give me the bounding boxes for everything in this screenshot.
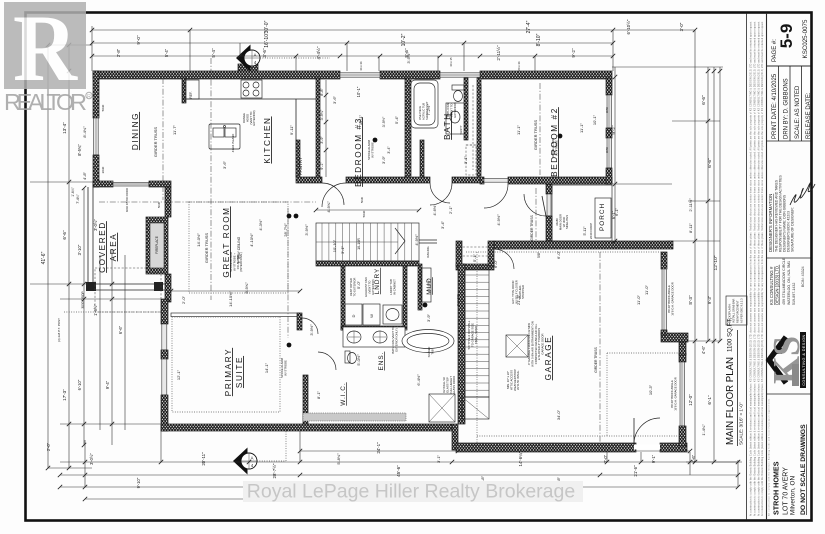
svg-text:ACRYLIC TUB: ACRYLIC TUB [422,103,426,120]
svg-text:Milverton, ON: Milverton, ON [790,476,797,515]
svg-text:2030: 2030 [101,166,105,173]
svg-text:RELEASE DATE:: RELEASE DATE: [806,92,812,139]
top dimension labels [116,20,576,60]
extra bottom labels [336,453,561,486]
fireplace [146,217,168,274]
svg-text:REINFORCEMENT: REINFORCEMENT [736,300,740,323]
svg-text:GIRDER TRUSS: GIRDER TRUSS [204,233,209,263]
svg-text:W/ STROBE: W/ STROBE [283,360,287,376]
svg-text:VANITY: VANITY [459,125,463,134]
svg-text:8'-9⅝": 8'-9⅝" [244,282,249,294]
svg-text:12'-10": 12'-10" [713,255,719,270]
svg-text:4'-6½": 4'-6½" [426,279,431,291]
wic closet shelf [303,413,406,421]
svg-text:6'-6": 6'-6" [118,325,123,334]
svg-text:SOAKER: SOAKER [427,346,431,357]
svg-text:KITCHEN: KITCHEN [263,116,272,163]
svg-text:At construction to comply with: At construction to comply with the Ontar… [750,21,753,516]
svg-text:36 x 36: 36 x 36 [359,61,363,71]
disclaimer fine print column [750,21,765,516]
svg-text:459 STILLMEADOW CIRCLE: 459 STILLMEADOW CIRCLE [782,257,786,305]
svg-text:IN CABINET: IN CABINET [392,279,396,295]
svg-text:Royal LePage Hiller Realty Bro: Royal LePage Hiller Realty Brokerage [247,481,575,503]
svg-text:41'-6": 41'-6" [41,251,47,264]
basement stairs [456,269,489,419]
svg-text:5'-11": 5'-11" [583,226,587,236]
ceiling dashed outlines [172,202,679,443]
svg-text:At construction to comply with: At construction to comply with the Ontar… [758,21,761,516]
svg-text:6'-0": 6'-0" [556,250,561,259]
svg-text:6'-10½": 6'-10½" [626,19,631,34]
svg-text:3'-10": 3'-10" [77,244,82,255]
bedroom2 closet [473,85,481,170]
svg-text:9'-11": 9'-11" [289,124,294,134]
right dimension lines [611,19,742,464]
svg-text:10'-1": 10'-1" [358,114,363,125]
svg-text:10'-1": 10'-1" [356,86,361,97]
svg-text:5030: 5030 [101,104,105,111]
svg-text:10'-1": 10'-1" [592,114,597,125]
bottom dimension lines [46,431,740,501]
svg-text:4'-9⅝": 4'-9⅝" [326,201,331,213]
svg-text:3'-9½": 3'-9½" [406,52,411,64]
svg-text:5'-8¾": 5'-8¾" [336,453,341,465]
smoke alarm symbols [287,134,563,348]
svg-text:4'-10½": 4'-10½" [249,233,254,247]
svg-text:4'-9½": 4'-9½" [496,214,501,226]
section marker top [236,45,330,72]
svg-text:5030: 5030 [360,196,364,203]
REALTOR logo [4,0,92,115]
svg-text:3'-0½": 3'-0½" [93,219,98,231]
svg-text:All construction to comply wit: All construction to comply with the Onta… [768,398,771,516]
svg-text:EXTERIOR): EXTERIOR) [371,279,375,294]
primary suite top wall [169,208,318,338]
svg-text:SUITE: SUITE [235,356,244,388]
svg-text:BACKSPLASH:: BACKSPLASH: [728,303,732,323]
svg-text:KSC025-0075: KSC025-0075 [802,19,809,58]
title block: print date / drn / scale / release fields [767,66,813,258]
svg-text:9'-1": 9'-1" [320,162,324,170]
svg-text:2'-8": 2'-8" [116,48,121,57]
svg-text:PRINT DATE: 4/10/2025: PRINT DATE: 4/10/2025 [772,73,778,139]
svg-text:GIRDER TRUSS: GIRDER TRUSS [533,120,538,150]
svg-text:AS PER OBC 9.5.2.3: AS PER OBC 9.5.2.3 [740,298,744,323]
svg-text:MAIN FLOOR PLAN: MAIN FLOOR PLAN [725,357,736,445]
svg-text:3'-9": 3'-9" [426,313,431,322]
svg-text:10'-10": 10'-10" [332,239,337,252]
svg-text:11'-1": 11'-1" [579,122,584,132]
svg-text:6'-1": 6'-1" [614,207,619,216]
svg-text:ONE PIECE: ONE PIECE [418,106,422,120]
svg-text:2'-1": 2'-1" [448,205,453,214]
svg-text:BCIN: 43324: BCIN: 43324 [801,266,805,287]
svg-text:3'-9¼": 3'-9¼" [320,109,324,120]
svg-text:DESIGNER'S INFORMATION: DESIGNER'S INFORMATION [768,194,773,252]
svg-text:2'-0": 2'-0" [46,442,51,451]
svg-text:8'-4¾": 8'-4¾" [82,126,87,138]
svg-text:W/ STROBE: W/ STROBE [370,142,374,158]
title block: page number box [767,19,811,66]
svg-text:5'-0½": 5'-0½" [356,354,361,366]
svg-text:(3) 2x8 P.T. POST: (3) 2x8 P.T. POST [57,318,61,342]
svg-text:KS CONSULTING #: KS CONSULTING # [769,266,774,305]
svg-text:1'-6½": 1'-6½" [93,304,98,316]
svg-text:3'-1": 3'-1" [340,245,345,254]
svg-text:5030: 5030 [157,201,161,208]
doors [318,183,660,450]
bath fixtures [411,80,464,135]
svg-text:11'-0": 11'-0" [636,294,641,304]
svg-text:27'-4": 27'-4" [526,20,532,33]
svg-text:8'-1": 8'-1" [316,390,321,399]
svg-text:6060 PATIO DOOR: 6060 PATIO DOOR [125,188,129,212]
svg-text:30'-0": 30'-0" [264,20,270,33]
svg-text:8'-10": 8'-10" [536,33,542,46]
svg-text:41x64 ISLAND: 41x64 ISLAND [231,134,235,153]
title block: project block [767,394,811,516]
svg-text:FIREPLACE: FIREPLACE [155,236,159,254]
svg-text:5'-0": 5'-0" [356,280,361,289]
svg-text:17'-3": 17'-3" [62,389,67,401]
svg-text:3'-6": 3'-6" [332,95,337,104]
svg-text:PANTRY: PANTRY [298,157,303,175]
svg-text:TO EXTERIOR: TO EXTERIOR [352,278,356,297]
svg-text:3'-6": 3'-6" [222,160,227,169]
svg-text:24'-1": 24'-1" [376,442,381,454]
svg-text:3'-9½": 3'-9½" [304,224,309,236]
room labels [98,107,559,406]
svg-text:6'-6": 6'-6" [62,230,67,240]
svg-text:LOT 70 AVERY: LOT 70 AVERY [783,467,790,515]
svg-text:A: A [254,53,257,58]
svg-text:8'-3": 8'-3" [688,295,693,305]
main floor plan title [725,317,744,446]
svg-text:1'-4⅛": 1'-4⅛" [701,424,706,436]
svg-text:3030 DROP: 3030 DROP [81,291,85,308]
linen closet [466,145,476,175]
svg-text:28'-7½": 28'-7½" [272,463,277,478]
svg-text:16'8 O.A. GARAGE DOOR: 16'8 O.A. GARAGE DOOR [673,377,677,411]
svg-text:W.I.C.: W.I.C. [340,382,347,405]
svg-text:1'-6¼": 1'-6¼" [71,186,75,196]
svg-text:DO NOT SCALE DRAWINGS: DO NOT SCALE DRAWINGS [800,424,807,515]
girder truss lines [99,58,600,443]
svg-text:3'-9": 3'-9" [320,136,324,144]
svg-text:BEDROOM #3: BEDROOM #3 [354,117,363,187]
svg-text:EXTERIOR): EXTERIOR) [453,102,457,117]
kitchen counters and fixtures [184,80,316,177]
svg-text:5'-4": 5'-4" [394,115,399,124]
svg-text:3'-4": 3'-4" [387,146,391,154]
svg-text:3'-0": 3'-0" [679,22,684,31]
svg-text:3050: 3050 [605,146,609,153]
svg-text:3'-4": 3'-4" [440,220,445,229]
mud room fixtures [421,247,489,302]
exterior walls [93,64,688,452]
svg-text:RAILING: RAILING [426,246,430,257]
svg-text:SCALE: AS NOTED: SCALE: AS NOTED [795,85,801,139]
svg-text:6'-10": 6'-10" [77,379,82,390]
svg-text:At construction to comply with: At construction to comply with the Ontar… [761,21,764,516]
svg-text:11'-7": 11'-7" [172,124,177,134]
svg-text:8'-5¾": 8'-5¾" [77,144,82,156]
svg-text:GARAGE DOOR: GARAGE DOOR [541,333,545,354]
svg-text:ENS.: ENS. [378,352,385,371]
laundry fixtures [345,304,402,325]
svg-text:4'-6": 4'-6" [701,345,706,354]
svg-text:R: R [13,0,78,101]
svg-text:21'-6": 21'-6" [633,465,638,477]
svg-text:9'-2": 9'-2" [571,48,576,58]
attic access hatch [506,335,528,391]
svg-text:4'-3½": 4'-3½" [258,219,263,231]
svg-text:9'-2": 9'-2" [611,125,616,135]
title block: designer information [768,175,815,252]
svg-text:14'-0½": 14'-0½" [196,233,201,247]
svg-text:W/ STROBE: W/ STROBE [554,140,558,156]
svg-text:6'-6": 6'-6" [707,158,713,168]
svg-text:GIRDER TRUSS: GIRDER TRUSS [153,127,158,157]
svg-text:10-10R: 10-10R [357,238,361,250]
svg-text:GLASS DOOR: GLASS DOOR [452,376,456,395]
interior walls [182,78,481,424]
svg-text:9'-3": 9'-3" [707,295,712,304]
svg-text:20 x 36: 20 x 36 [517,61,521,71]
svg-text:DRN BY: D. GIBBONS: DRN BY: D. GIBBONS [784,78,790,139]
svg-text:2040 DROP: 2040 DROP [589,223,593,239]
svg-text:WATERLOO, ON, N2L 5M1: WATERLOO, ON, N2L 5M1 [787,261,791,305]
svg-text:6'-4½": 6'-4½" [416,374,421,386]
svg-text:PRIMARY: PRIMARY [224,348,233,396]
svg-text:9'-0": 9'-0" [136,35,141,45]
svg-text:8'-8": 8'-8" [320,88,324,96]
svg-text:LNDRY: LNDRY [374,268,381,295]
svg-text:3'-0½": 3'-0½" [89,453,94,465]
svg-text:13'-4": 13'-4" [62,122,67,134]
extra mid labels [426,204,541,322]
svg-text:(INTERCONN.): (INTERCONN.) [239,252,243,271]
svg-text:28'-7½": 28'-7½" [283,223,288,237]
backsplash note box [726,296,747,325]
svg-text:5'-4": 5'-4" [164,48,169,57]
svg-text:SCALE: 3/16" = 1'-0": SCALE: 3/16" = 1'-0" [739,402,744,445]
interior dimension text [172,52,653,420]
left dimension lines [30,43,161,470]
svg-text:INSTALL GRAB BAR: INSTALL GRAB BAR [732,299,736,323]
svg-text:W: W [369,314,374,318]
svg-text:5'-4": 5'-4" [211,48,216,58]
svg-text:14'-6¼": 14'-6¼" [518,451,523,466]
stair header dims [314,201,421,218]
svg-text:7'-2½": 7'-2½" [426,104,431,116]
svg-text:GIRDER TRUSS: GIRDER TRUSS [594,346,598,372]
svg-text:34'-0": 34'-0" [556,409,561,420]
svg-text:TUB: TUB [431,349,435,354]
svg-text:DINING: DINING [131,112,140,150]
svg-text:SIGNATURE OF DESIGNER:: SIGNATURE OF DESIGNER: [791,207,795,252]
bedroom3 dim chain [320,80,391,177]
svg-text:8'-11": 8'-11" [688,222,693,232]
svg-text:At construction to comply with: At construction to comply with the Ontar… [754,21,757,516]
svg-text:2'-11½": 2'-11½" [688,198,693,212]
porch [552,185,612,241]
svg-text:PORCH: PORCH [599,203,606,231]
svg-text:9'-1": 9'-1" [651,454,656,463]
svg-text:3'-1": 3'-1" [436,454,441,463]
svg-text:4'-6": 4'-6" [691,454,696,463]
svg-text:2'-11½": 2'-11½" [495,45,501,61]
svg-text:5/8": 5/8" [537,251,541,258]
ensuite fixtures [343,327,455,422]
svg-text:5-9: 5-9 [777,24,796,49]
svg-text:4'-8": 4'-8" [82,171,87,180]
svg-text:9'-10": 9'-10" [136,477,141,488]
svg-text:4'-6½": 4'-6½" [432,204,437,216]
svg-text:RAILING: RAILING [456,293,460,306]
svg-text:3'-6": 3'-6" [262,48,267,58]
svg-text:45'-6": 45'-6" [396,465,401,477]
svg-text:3'-1": 3'-1" [463,155,468,164]
svg-text:11'-0": 11'-0" [644,284,649,294]
svg-text:519-897-1432: 519-897-1432 [792,283,796,305]
covered area outline [86,187,165,291]
svg-text:DESIGN (2013) LTD.: DESIGN (2013) LTD. [775,265,780,305]
title block separators [747,13,767,520]
svg-text:STRIPPED: STRIPPED [521,285,525,299]
svg-text:2'-0": 2'-0" [181,295,186,304]
svg-text:16'8 O.A. GARAGE DOOR: 16'8 O.A. GARAGE DOOR [670,282,674,316]
svg-text:GIRDER TRUSS: GIRDER TRUSS [530,214,534,240]
svg-text:EXTERIOR ONLY): EXTERIOR ONLY) [394,328,398,351]
svg-text:R: R [87,94,91,100]
svg-text:CONSULTING & DESIGN: CONSULTING & DESIGN [802,334,806,385]
svg-text:REALTOR: REALTOR [4,89,87,115]
main staircase [316,223,437,261]
top dimension lines [90,26,695,71]
svg-text:EXTERIOR): EXTERIOR) [252,110,256,125]
svg-text:10'-3": 10'-3" [648,384,653,395]
svg-text:10'-2": 10'-2" [401,33,407,46]
svg-text:REF.: REF. [189,91,193,98]
svg-text:4'-4½": 4'-4½" [315,46,321,59]
svg-text:3'-9": 3'-9" [381,155,386,164]
hall door arcs [322,183,452,207]
title block: KS address [769,257,805,305]
small notes [125,57,677,411]
section marker bottom [233,424,286,475]
svg-text:COVERED: COVERED [98,221,107,273]
svg-text:TAPE + SAND: TAPE + SAND [474,326,478,344]
svg-text:7'-4¾": 7'-4¾" [76,193,80,203]
svg-text:12'-0": 12'-0" [688,394,693,406]
svg-text:STROH HOMES: STROH HOMES [772,461,781,515]
svg-text:AREA: AREA [109,233,118,262]
svg-text:4'-9½": 4'-9½" [414,234,419,246]
svg-text:3050: 3050 [605,106,609,113]
svg-text:5'-1": 5'-1" [472,253,477,262]
svg-text:5030: 5030 [362,210,366,217]
svg-text:6'-1": 6'-1" [707,395,712,405]
svg-text:SIDELITES: SIDELITES [565,215,569,229]
svg-text:20'-11": 20'-11" [201,452,206,466]
watermark [243,481,583,502]
svg-text:GARAGE: GARAGE [544,336,553,381]
KS logo [766,332,808,388]
svg-text:2'-0": 2'-0" [603,454,608,463]
svg-text:14'-1": 14'-1" [264,362,269,373]
svg-text:6'-6": 6'-6" [701,95,707,105]
svg-text:16'-10": 16'-10" [264,32,270,48]
svg-text:12'-1": 12'-1" [176,369,181,380]
svg-text:D: D [351,314,356,317]
svg-text:11'-1": 11'-1" [516,124,521,134]
svg-text:W/ R-50 INSUL.: W/ R-50 INSUL. [516,370,520,390]
svg-text:30 x 15: 30 x 15 [449,57,453,67]
svg-text:9'-4": 9'-4" [105,380,110,389]
svg-text:3'-9½": 3'-9½" [309,324,314,336]
svg-text:6'-0": 6'-0" [493,259,498,268]
svg-text:3'-9½": 3'-9½" [382,116,386,127]
